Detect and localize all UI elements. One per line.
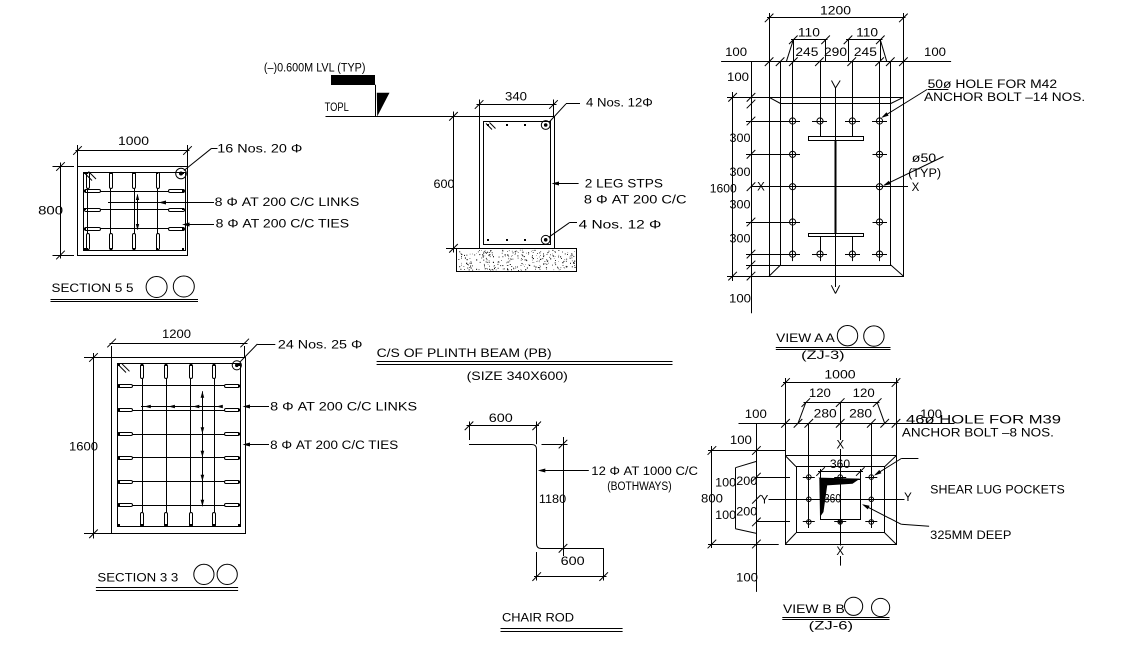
section 5-5 vertical link bars	[88, 189, 158, 234]
leader links arrow (section 3-3)	[243, 405, 270, 409]
horizontal centerline Y-Y (view B-B)	[761, 492, 913, 506]
chair rod bent bar	[469, 445, 604, 549]
plate corner chamfer lines (view A-A)	[769, 97, 903, 276]
base plate outer rectangle (view A-A)	[770, 98, 904, 277]
svg-text:TOPL: TOPL	[325, 102, 350, 114]
I-beam bottom flange (view A-A)	[809, 234, 864, 237]
50 dia anchor bolt holes - 14 nos (view A-A)	[786, 114, 887, 261]
bolt column lines (view B-B)	[809, 423, 872, 528]
svg-text:SHEAR LUG POCKETS: SHEAR LUG POCKETS	[930, 485, 1065, 497]
shear lug pocket square (view B-B)	[821, 480, 861, 520]
svg-text:2 LEG STPS: 2 LEG STPS	[585, 179, 664, 191]
section 3-3 vertical pointer line with arrows	[201, 391, 205, 506]
section 5-5 corner diagonal marks	[85, 172, 97, 181]
main top dimension line 100/280/280/100 (view B-B)	[739, 419, 955, 428]
svg-text:C/S OF PLINTH BEAM (PB): C/S OF PLINTH BEAM (PB)	[377, 346, 552, 360]
base plate inner rectangle (view A-A)	[781, 104, 891, 266]
TOPL ground line	[326, 116, 451, 118]
svg-text:X: X	[757, 182, 765, 194]
svg-text:4 Nos. 12Φ: 4 Nos. 12Φ	[586, 98, 653, 110]
plinth beam rebar dots	[487, 124, 526, 241]
plate corner chamfer lines (view B-B)	[786, 456, 897, 544]
plinth beam bottom-right bar circle	[541, 235, 550, 244]
svg-text:1600: 1600	[69, 442, 98, 454]
svg-text:X: X	[836, 439, 844, 451]
svg-text:600: 600	[489, 413, 513, 425]
svg-text:X: X	[912, 182, 920, 194]
leader to top-right hole (view B-B)	[874, 459, 918, 476]
column I-beam web (view A-A)	[835, 140, 837, 233]
dim texts 280 280 and 100 100 (view B-B)	[745, 408, 942, 421]
level marker filled triangle	[377, 93, 390, 117]
plinth beam top-right bar circle	[541, 121, 550, 130]
column section 3-3 outer rectangle	[112, 358, 246, 534]
svg-text:100: 100	[727, 72, 749, 84]
svg-text:X: X	[836, 546, 844, 558]
svg-text:1180: 1180	[539, 494, 566, 506]
leader 2 LEG STPS (plinth beam)	[552, 182, 579, 186]
leader 12 dia AT 1000 C/C (chair rod)	[538, 466, 698, 493]
leader 4 Nos. 12 dia top (plinth beam)	[549, 98, 653, 123]
svg-text:245: 245	[795, 47, 818, 59]
svg-text:340: 340	[505, 92, 527, 104]
svg-text:280: 280	[849, 408, 872, 420]
section 5-5 bar hooks	[85, 173, 185, 250]
svg-text:VIEW A A: VIEW A A	[776, 331, 835, 345]
anchor bolt column lines (view A-A)	[793, 62, 880, 259]
main top dimension line 100/245/290/245/100 (view A-A)	[721, 40, 951, 104]
dimension 600 (chair rod bottom)	[532, 548, 608, 581]
svg-text:100: 100	[715, 510, 736, 522]
dim texts top row (view A-A)	[725, 47, 946, 59]
svg-text:8 Φ AT 200 C/C LINKS: 8 Φ AT 200 C/C LINKS	[215, 197, 360, 209]
shear lug filled wedge vertical (view B-B)	[819, 478, 827, 517]
title underline (view A-A)	[776, 347, 891, 349]
svg-text:(SIZE 340X600): (SIZE 340X600)	[467, 369, 568, 383]
svg-text:290: 290	[824, 47, 847, 59]
section 5-5 links pointer bar	[108, 201, 214, 205]
section 3-3 horizontal pointer line with arrows	[141, 405, 223, 409]
dimension 360 (pocket width)	[816, 459, 864, 479]
level step filled rectangle	[331, 75, 375, 85]
vertical centerline X-X (view B-B)	[836, 403, 844, 566]
section 5-5 horizontal tie bars	[100, 192, 169, 229]
title underline (chair rod)	[501, 628, 623, 630]
plinth beam footing with stipple concrete hatch	[457, 249, 577, 272]
leader 4 Nos. 12 dia bottom (plinth beam)	[549, 220, 661, 237]
svg-text:16 Nos. 20 Φ: 16 Nos. 20 Φ	[217, 144, 302, 156]
leader 50 dia hole for M42 (view A-A)	[881, 79, 1085, 118]
svg-text:325MM DEEP: 325MM DEEP	[930, 530, 1012, 542]
svg-text:1600: 1600	[710, 184, 737, 196]
svg-text:800: 800	[38, 206, 63, 218]
title circles (view B-B)	[845, 597, 863, 615]
svg-text:Y: Y	[904, 492, 912, 504]
svg-text:300: 300	[730, 234, 751, 246]
dimension 600 (plinth beam left)	[434, 112, 480, 253]
svg-text:100: 100	[924, 47, 946, 59]
svg-text:100: 100	[745, 409, 767, 421]
svg-text:(ZJ-6): (ZJ-6)	[809, 619, 853, 633]
svg-text:100: 100	[729, 293, 751, 305]
leader 24 Nos. 25 dia (section 3-3)	[240, 340, 363, 363]
dimension 110 left (view A-A)	[789, 27, 830, 61]
svg-text:4 Nos. 12 Φ: 4 Nos. 12 Φ	[579, 220, 662, 232]
dimension 1600 line (view A-A)	[710, 92, 737, 281]
svg-text:VIEW B B: VIEW B B	[783, 602, 845, 616]
svg-text:120: 120	[853, 388, 875, 400]
dimension 340 (plinth beam top)	[475, 92, 558, 117]
svg-text:200: 200	[736, 506, 757, 518]
svg-text:8 Φ AT 200 C/C LINKS: 8 Φ AT 200 C/C LINKS	[270, 402, 417, 414]
svg-text:200: 200	[736, 476, 757, 488]
title underline (section 5-5)	[51, 299, 199, 301]
I-beam top flange (view A-A)	[809, 137, 864, 141]
dimension 120 120 (view B-B)	[798, 388, 885, 423]
svg-text:8 Φ AT 200 C/C TIES: 8 Φ AT 200 C/C TIES	[270, 440, 398, 452]
svg-text:1000: 1000	[824, 370, 855, 382]
level step vertical line	[375, 85, 377, 117]
section 5-5 corner bar callout circle	[176, 168, 187, 179]
title underline (plinth beam)	[377, 361, 673, 363]
dimension 1000 (view B-B top)	[781, 370, 900, 456]
plinth beam outer rectangle	[480, 117, 555, 249]
section 3-3 bar hooks	[118, 365, 240, 527]
title circles (section 3-3)	[194, 564, 214, 584]
svg-text:120: 120	[809, 388, 831, 400]
svg-text:ø50: ø50	[912, 153, 936, 165]
svg-text:8 Φ AT 200 C/C: 8 Φ AT 200 C/C	[584, 195, 687, 207]
dimension 1200 (view A-A top)	[765, 6, 908, 98]
plinth beam stirrup rectangle	[484, 122, 551, 245]
dim texts 300 chain (view A-A)	[730, 133, 751, 246]
base plate inner rectangle (view B-B)	[797, 467, 885, 533]
dimension 1000 (section 5-5 top)	[73, 136, 192, 167]
base plate outer rectangle (view B-B)	[786, 456, 897, 545]
svg-text:280: 280	[814, 408, 837, 420]
section 3-3 vertical link bars	[143, 378, 215, 512]
svg-text:300: 300	[730, 167, 751, 179]
svg-text:12 Φ AT 1000 C/C: 12 Φ AT 1000 C/C	[591, 466, 698, 478]
svg-text:(TYP): (TYP)	[908, 168, 941, 180]
plinth beam corner diagonal mark	[486, 123, 496, 130]
svg-text:46ø HOLE FOR M39: 46ø HOLE FOR M39	[906, 415, 1061, 427]
svg-text:SECTION 3 3: SECTION 3 3	[97, 571, 178, 585]
svg-text:600: 600	[434, 179, 455, 191]
leader 16 Nos. 20 dia (section 5-5)	[184, 144, 302, 171]
svg-text:(–)0.600M LVL (TYP): (–)0.600M LVL (TYP)	[264, 63, 366, 75]
left projection trapezoid (view B-B)	[735, 461, 756, 533]
svg-text:ANCHOR BOLT –14 NOS.: ANCHOR BOLT –14 NOS.	[924, 92, 1085, 104]
left dimension chain (view B-B)	[708, 423, 790, 592]
title underline (view B-B)	[782, 617, 889, 619]
dimension 100 top-left (view A-A)	[727, 62, 755, 102]
svg-text:100: 100	[730, 435, 752, 447]
title underline (section 3-3)	[96, 587, 238, 589]
shear lug filled wedge horizontal (view B-B)	[819, 478, 861, 486]
dimension 1180 (chair rod)	[539, 437, 568, 556]
46 dia anchor bolt holes - 8 nos (view B-B)	[803, 471, 878, 528]
svg-text:SECTION 5 5: SECTION 5 5	[52, 281, 134, 295]
svg-text:800: 800	[701, 494, 723, 506]
section 5-5 stirrup inner rectangle	[84, 173, 186, 251]
horizontal centerline X-X (view A-A)	[752, 182, 920, 194]
svg-text:(BOTHWAYS): (BOTHWAYS)	[607, 481, 672, 493]
column section 5-5 outer concrete rectangle	[78, 167, 188, 256]
title circles (view A-A)	[837, 326, 857, 346]
leader ties arrow (section 5-5)	[182, 223, 214, 227]
section 3-3 horizontal tie bars	[133, 386, 225, 506]
section 5-5 vertical link pointer	[136, 194, 139, 230]
dimension 800 (section 5-5 left)	[38, 162, 74, 259]
dimension 800 (view B-B left)	[701, 446, 723, 548]
left dimension chain line (view A-A)	[747, 97, 756, 313]
dimension 1200 (section 3-3 top)	[107, 329, 249, 358]
svg-text:(ZJ-3): (ZJ-3)	[801, 348, 844, 362]
svg-text:8 Φ AT 200 C/C TIES: 8 Φ AT 200 C/C TIES	[216, 219, 350, 231]
svg-text:300: 300	[730, 200, 751, 212]
svg-text:600: 600	[561, 556, 585, 568]
svg-text:300: 300	[730, 133, 751, 145]
svg-text:1200: 1200	[162, 329, 191, 341]
svg-text:110: 110	[798, 27, 820, 39]
section 3-3 corner diagonal marks	[119, 364, 130, 373]
svg-text:CHAIR ROD: CHAIR ROD	[502, 611, 574, 625]
svg-text:24 Nos. 25 Φ: 24 Nos. 25 Φ	[278, 340, 363, 352]
vertical centerline Y-Y (view A-A)	[831, 81, 840, 294]
leader ties arrow (section 3-3)	[243, 443, 270, 447]
section 3-3 rebar dots	[118, 364, 240, 526]
svg-text:100: 100	[715, 477, 736, 489]
svg-text:110: 110	[856, 27, 878, 39]
svg-text:Y: Y	[761, 494, 769, 506]
section 3-3 corner bar callout circle	[232, 361, 241, 370]
dimension 600 (chair rod top)	[465, 413, 541, 444]
dimension 110 right (view A-A)	[844, 27, 885, 61]
section 3-3 stirrup inner rectangle	[118, 364, 241, 527]
section 5-5 rebar dots	[84, 172, 184, 250]
svg-text:1200: 1200	[820, 6, 851, 18]
svg-text:ANCHOR BOLT –8 NOS.: ANCHOR BOLT –8 NOS.	[902, 428, 1054, 440]
svg-text:245: 245	[854, 47, 877, 59]
leader 325mm deep (view B-B)	[862, 504, 929, 526]
title circles (section 5-5)	[146, 277, 167, 298]
svg-text:100: 100	[736, 573, 758, 585]
svg-text:100: 100	[725, 47, 747, 59]
leader dia-50 TYP (view A-A)	[883, 153, 944, 186]
dimension 1600 (section 3-3 left)	[69, 353, 112, 539]
svg-text:1000: 1000	[118, 136, 149, 148]
hole row extension lines (view A-A)	[727, 98, 887, 277]
